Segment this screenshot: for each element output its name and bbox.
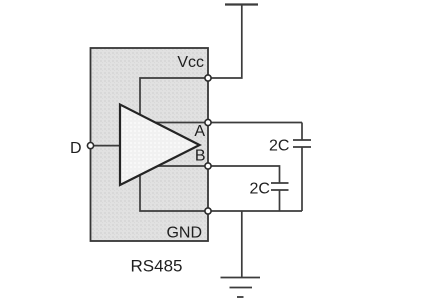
svg-text:GND: GND xyxy=(166,225,202,242)
svg-text:Vcc: Vcc xyxy=(177,54,204,71)
capacitor C1 (2C) top plate xyxy=(293,139,311,141)
ground symbol xyxy=(221,278,261,298)
pin terminal GND xyxy=(205,208,211,214)
wire: output B from triangle to capacitor branch xyxy=(157,166,280,183)
svg-text:A: A xyxy=(194,123,205,140)
svg-text:B: B xyxy=(195,148,206,165)
wire: ground stem xyxy=(241,211,243,278)
wire: C2 bottom down to ground bus xyxy=(279,190,281,211)
capacitor C2 (2C) bottom plate xyxy=(271,189,289,191)
wire: output A from triangle to capacitor branch xyxy=(154,122,302,124)
svg-text:D: D xyxy=(70,140,82,157)
svg-text:2C: 2C xyxy=(250,181,270,198)
pin terminal D xyxy=(87,143,93,149)
pin terminal B xyxy=(205,163,211,169)
wire: Vcc pin into driver triangle xyxy=(140,78,208,116)
capacitor C1 (2C) bottom plate xyxy=(293,146,311,148)
wire: GND bus from triangle to capacitors xyxy=(140,174,302,212)
pin terminal A xyxy=(205,119,211,125)
wire: A branch down to capacitor C1 xyxy=(301,123,303,141)
svg-text:RS485: RS485 xyxy=(131,257,183,276)
wire: C1 bottom down to ground bus xyxy=(301,147,303,211)
supply rail (Vcc bar) xyxy=(225,3,258,5)
svg-text:2C: 2C xyxy=(269,138,289,155)
pin terminal Vcc xyxy=(205,75,211,81)
wire: supply rail down to Vcc pin xyxy=(208,5,242,79)
wire: input D into triangle xyxy=(91,145,121,147)
IC body U1 (RS485 transceiver box) xyxy=(91,48,209,241)
driver buffer triangle xyxy=(120,105,200,186)
capacitor C2 (2C) top plate xyxy=(271,182,289,184)
